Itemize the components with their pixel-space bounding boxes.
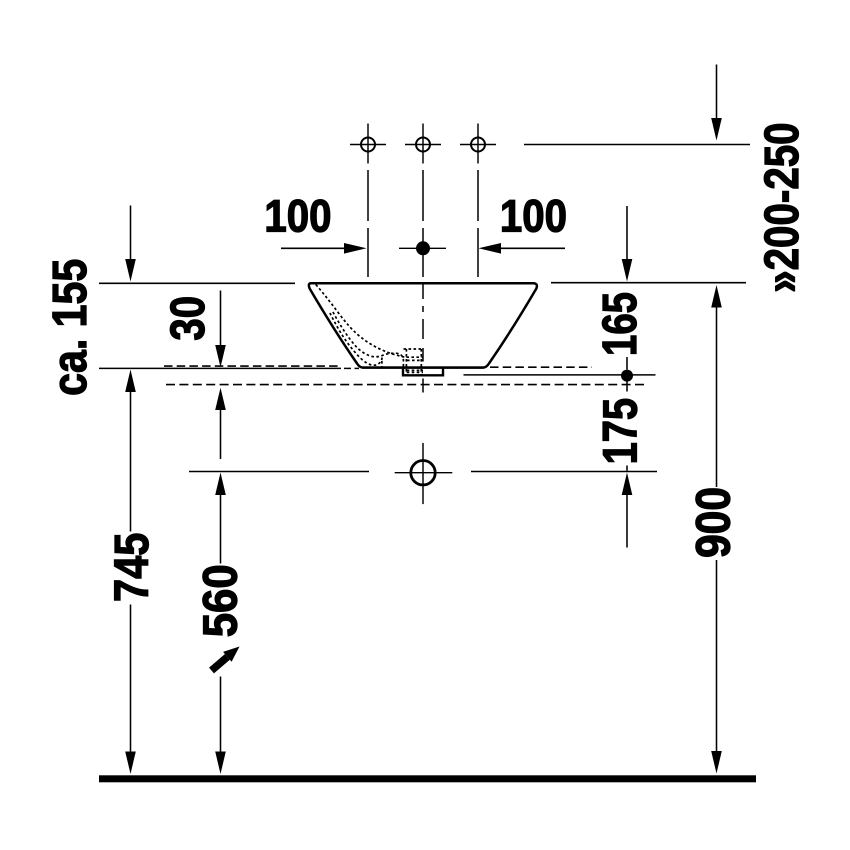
svg-text:900: 900 bbox=[686, 487, 740, 558]
svg-text:745: 745 bbox=[104, 533, 159, 602]
basin outline bbox=[309, 283, 537, 367]
vertical centerline through basin bbox=[422, 283, 424, 393]
drain box dotted top bbox=[404, 348, 424, 350]
svg-text:165: 165 bbox=[594, 292, 647, 356]
overflow level line right bbox=[464, 374, 656, 376]
inner wall dotted curve 2 bbox=[330, 313, 382, 365]
floor line bbox=[99, 775, 756, 782]
dimension 175 bottom arrow bbox=[622, 473, 633, 548]
drain box dotted right vertical bbox=[420, 349, 422, 375]
dimension 165 top arrow bbox=[622, 206, 633, 282]
svg-text:»200-250: »200-250 bbox=[756, 122, 809, 292]
drain height line right bbox=[471, 471, 657, 473]
dimension 900 top arrow bbox=[711, 285, 722, 487]
faucet hole circle left bbox=[350, 124, 386, 164]
svg-text:175: 175 bbox=[594, 398, 647, 464]
dimension 100 right arrow bbox=[479, 243, 566, 254]
svg-text:30: 30 bbox=[162, 296, 215, 341]
dimension 560 lower line bbox=[215, 677, 226, 775]
faucet hole circle center bbox=[405, 124, 441, 164]
counter top line left bbox=[99, 367, 341, 369]
inner wall dotted curve 1 bbox=[316, 285, 407, 358]
drain box dotted foot1 bbox=[407, 369, 423, 371]
drain box dotted left vertical bbox=[405, 349, 407, 375]
faucet hole circle right bbox=[460, 124, 496, 164]
dimension 200-250 down arrow bbox=[711, 65, 722, 141]
drain box dotted mid1 bbox=[406, 356, 423, 358]
dimension 100 left arrow bbox=[281, 243, 367, 254]
drain height line left bbox=[189, 471, 369, 473]
svg-text:100: 100 bbox=[264, 191, 331, 242]
wall reference line top right bbox=[524, 144, 750, 146]
basin foot bbox=[403, 369, 443, 376]
overflow reference dot bbox=[621, 370, 633, 382]
hidden basin edge dashed right bbox=[490, 366, 592, 368]
dimension 175 line to drain level bbox=[626, 466, 628, 471]
dimension ca155 top arrow bbox=[125, 206, 136, 282]
svg-text:560: 560 bbox=[193, 564, 247, 637]
basin bottom line bbox=[362, 366, 484, 368]
counter top line left dash continuation bbox=[344, 367, 359, 369]
drain circle bbox=[395, 443, 453, 504]
dimension 560 top arrow bbox=[215, 473, 226, 564]
hidden basin edge dashed left bbox=[164, 365, 341, 367]
drain box dotted mid2 bbox=[407, 359, 423, 361]
svg-text:100: 100 bbox=[500, 191, 567, 242]
dimension 745 top arrow bbox=[125, 370, 136, 532]
inner wall dotted curve 3 bbox=[333, 312, 404, 368]
drain box dotted foot2 bbox=[407, 371, 423, 373]
svg-text:ca. 155: ca. 155 bbox=[44, 259, 97, 396]
dimension 745 lower line bbox=[125, 605, 136, 775]
dimension 30 bottom arrow bbox=[215, 388, 226, 459]
rim reference line right bbox=[551, 282, 746, 284]
dimension 165 line to dot bbox=[626, 357, 628, 370]
dimension 30 top arrow bbox=[215, 291, 226, 368]
centerline left hole bbox=[367, 170, 369, 277]
centerline middle hole bbox=[422, 170, 424, 277]
overflow channel dotted arch bbox=[381, 361, 383, 369]
centerline right hole bbox=[477, 170, 479, 277]
rim reference line left bbox=[99, 282, 295, 284]
mounting direction arrow bbox=[212, 647, 240, 671]
counter bottom dashed line bbox=[166, 384, 647, 386]
center reference dot bbox=[399, 241, 446, 255]
dimension 900 lower line bbox=[711, 560, 722, 774]
dimension 175 line from dot bbox=[626, 382, 628, 392]
